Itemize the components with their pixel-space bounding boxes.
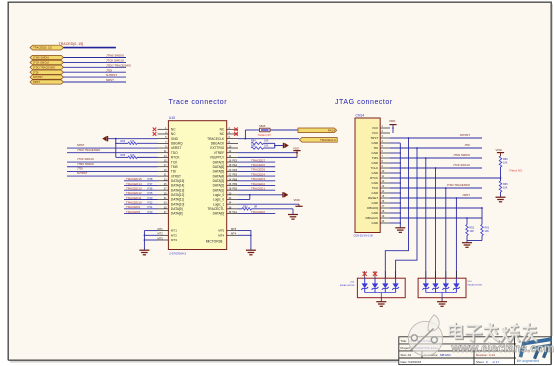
svg-text:R84: R84 (251, 140, 256, 143)
wire VCC pins to VDD (392, 125, 394, 133)
port NJTRST (30, 75, 64, 79)
U10 left pin 29 DATA[12] (158, 194, 169, 196)
CN14 pin 16 GND (380, 202, 390, 204)
wire CN14 pin 15 NRST (390, 197, 482, 199)
wire TRACED9 (124, 208, 158, 210)
wire TRACED10 (124, 203, 158, 205)
svg-text:R93: R93 (121, 140, 126, 143)
wire TRACED7 (238, 161, 275, 163)
svg-text:MT1: MT1 (171, 229, 177, 233)
svg-text:U10: U10 (169, 116, 175, 120)
svg-text:Title:: Title: (401, 339, 408, 343)
connector U10 body (168, 121, 226, 250)
svg-text:DATA[13]: DATA[13] (171, 188, 184, 192)
wire Logic_1 to VDD (238, 203, 299, 205)
U10 right pin 32 Logic_0 (227, 199, 238, 201)
wire TRACED6 (238, 166, 275, 168)
U10 right pin 10 EXTTRIG (227, 147, 238, 149)
svg-text:MT2: MT2 (171, 233, 177, 237)
logo ST (521, 339, 552, 359)
svg-text:GND: GND (372, 201, 380, 205)
wire TRACED11 (124, 199, 158, 201)
svg-text:RTCK: RTCK (171, 156, 180, 160)
svg-text:JTDI: JTDI (106, 68, 112, 72)
svg-text:10K: 10K (264, 140, 269, 143)
U10 left pin 15 TCK (158, 161, 169, 163)
svg-text:JTDO TRACESWO: JTDO TRACESWO (33, 65, 55, 69)
U10 mount pin MT3 (158, 239, 169, 241)
svg-text:0R: 0R (254, 205, 257, 208)
U10 right pin 4 NC (227, 133, 238, 135)
U10 left pin 5 GND (158, 138, 169, 140)
svg-text:TRACED7: TRACED7 (251, 158, 265, 162)
svg-text:DATA[6]: DATA[6] (213, 165, 225, 169)
svg-text:JTDO TRACESWO: JTDO TRACESWO (106, 63, 132, 67)
CN14 pin 4 GND (380, 142, 390, 144)
U14 pin 4 and zener diode 4 (455, 271, 457, 278)
svg-text:TRACED[0..15]: TRACED[0..15] (59, 42, 84, 46)
svg-text:10K: 10K (130, 140, 135, 143)
CN14 pin 20 GND (380, 222, 390, 224)
svg-text:NJTRST: NJTRST (106, 73, 117, 77)
wire TRACED5 (238, 170, 275, 172)
U10 left pin 19 TDI (158, 170, 169, 172)
wire JTMS_SWDIO (64, 57, 127, 59)
wire NRST to U10 (67, 147, 158, 149)
svg-text:DBGACK: DBGACK (211, 142, 225, 146)
U13 pin 4 and zener diode 4 (395, 271, 397, 278)
svg-text:TRACED13: TRACED13 (126, 186, 142, 190)
CN14 pin 13 TDO (380, 187, 390, 189)
svg-text:VTREF: VTREF (214, 151, 225, 155)
svg-text:JTMS SWDIO: JTMS SWDIO (106, 54, 125, 58)
svg-text:DATA[9]: DATA[9] (171, 207, 183, 211)
svg-text:NC: NC (171, 128, 176, 132)
ground flag for Logic_0 (283, 192, 288, 197)
U13 pin 2 and zener diode 2 (374, 271, 376, 278)
CN14 pin 15 RESET (380, 197, 390, 199)
U10 right pin 18 DATA[6] (227, 166, 238, 168)
wire MT1 MT2 MT3 to ground (144, 230, 157, 232)
svg-text:DATA[12]: DATA[12] (171, 193, 184, 197)
svg-text:DATA[4]: DATA[4] (213, 174, 225, 178)
CN14 pin 18 GND (380, 212, 390, 214)
ground for R89 (496, 197, 506, 202)
svg-text:TRACED8: TRACED8 (126, 210, 140, 214)
wire JTDO_TRACESWO to U10 (67, 152, 158, 154)
svg-text:DATA[8]: DATA[8] (171, 212, 183, 216)
wire TRACED14 (124, 184, 158, 186)
svg-text:JTDI: JTDI (77, 167, 83, 171)
svg-text:GND: GND (372, 191, 380, 195)
svg-text:JTCK SWCLK: JTCK SWCLK (106, 59, 124, 63)
svg-text:TRACED12: TRACED12 (126, 191, 142, 195)
wire TRACED1 (238, 189, 275, 191)
svg-text:TRACED10: TRACED10 (126, 200, 142, 204)
U10 right pin 30 Logic_0 (227, 194, 238, 196)
resistor R84 10K on DBGACK (251, 142, 264, 144)
wire CN14 pin 3 NJTRST (390, 137, 482, 139)
wire JTDO_TRACESWO (64, 66, 127, 68)
U10 right pin 14 VSUPPLY (227, 156, 238, 158)
U13 body (357, 278, 405, 298)
wire R86 to RTCK (500, 167, 502, 181)
svg-text:GND: GND (372, 221, 380, 225)
CN14 pin 11 RTCK (380, 177, 390, 179)
no-connect X on U13 pin 1 (363, 272, 367, 276)
svg-text:TMS: TMS (171, 165, 178, 169)
svg-text:MT4: MT4 (218, 233, 224, 237)
wire TRACED0 (238, 213, 275, 215)
resistor R89 10K (499, 181, 502, 192)
wire TRACECTL to ground (292, 209, 294, 215)
svg-text:GND: GND (372, 141, 380, 145)
svg-text:CON-20-2/V-1-00: CON-20-2/V-1-00 (354, 235, 374, 238)
CN14 pin 7 TMS (380, 157, 390, 159)
resistor R92 10K (466, 225, 469, 236)
svg-text:P30: P30 (148, 210, 153, 214)
wire CN14 GND pins to ground (390, 142, 400, 144)
svg-text:VCC: VCC (372, 131, 379, 135)
resistor R91 10K (481, 225, 484, 236)
wire drop pin 13 to U14 (445, 187, 447, 189)
CN14 pin 12 GND (380, 182, 390, 184)
svg-text:JTDI: JTDI (33, 70, 39, 74)
no-connect X on U10 pin 4 (234, 132, 238, 136)
svg-text:TRACED11: TRACED11 (126, 196, 142, 200)
svg-text:PB8: PB8 (233, 178, 238, 181)
U10 right pin 2 NC (227, 128, 238, 130)
svg-text:PE4: PE4 (233, 164, 238, 167)
svg-text:GND: GND (372, 181, 380, 185)
U13 common rail wire (365, 292, 396, 294)
svg-text:RTCK: RTCK (370, 176, 378, 180)
svg-text:NC: NC (171, 132, 176, 136)
port TRACECLK (299, 138, 337, 143)
svg-text:JTCK SWCLK: JTCK SWCLK (77, 157, 94, 161)
ground for MT1-3 (139, 250, 149, 255)
svg-text:MT5: MT5 (218, 229, 224, 233)
U10 left pin 7 DBGRQ (158, 142, 169, 144)
svg-text:NRST: NRST (463, 193, 471, 197)
wire NJTRST (64, 76, 127, 78)
svg-text:TRACED15: TRACED15 (126, 177, 142, 181)
CN14 pin 14 GND (380, 192, 390, 194)
U10 left pin 11 TDO (158, 152, 169, 154)
svg-text:10K: 10K (130, 154, 135, 157)
svg-text:Logic_1: Logic_1 (213, 202, 224, 206)
wire CN14 pin 5 JTDI (390, 147, 482, 149)
wire DBGRQ to R91 (481, 207, 483, 209)
svg-text:CN14: CN14 (356, 114, 365, 118)
U10 mount pin MT4 (227, 234, 238, 236)
svg-text:R90: R90 (243, 205, 248, 208)
CN14 pin 6 GND (380, 152, 390, 154)
U10 left pin 35 DATA[9] (158, 208, 169, 210)
U10 right pin 38 DATA[0] (227, 213, 238, 215)
svg-text:PE1: PE1 (233, 211, 238, 214)
wire TRACED2 (238, 184, 275, 186)
svg-text:Size: A4: Size: A4 (401, 353, 412, 357)
svg-text:NJTRST: NJTRST (460, 133, 471, 137)
svg-text:10K: 10K (470, 230, 475, 233)
svg-text:R85: R85 (251, 144, 256, 147)
no-connect X on U10 pin 2 (234, 128, 238, 132)
svg-text:GND: GND (372, 151, 380, 155)
U14 pin 2 and zener diode 2 (435, 271, 437, 278)
port JTMS_SWDIO (30, 55, 64, 59)
svg-text:NC: NC (220, 128, 225, 132)
svg-text:P33: P33 (148, 196, 153, 200)
wire TRACED12 (124, 194, 158, 196)
U10 right pin 20 DATA[5] (227, 170, 238, 172)
svg-text:MT5: MT5 (231, 227, 237, 231)
wire DBGACK to R92 (466, 217, 468, 219)
resistor R85 10K on EXTTRIG (251, 147, 264, 149)
U10 right pin 8 DBGACK (227, 142, 238, 144)
wire CN14 pin 11 (390, 177, 501, 179)
svg-text:MICTOR38: MICTOR38 (206, 240, 223, 244)
wire TRACED8 (124, 213, 158, 215)
svg-text:P32: P32 (148, 200, 153, 204)
svg-text:NJTRST: NJTRST (77, 171, 88, 175)
svg-text:life.augmented: life.augmented (517, 359, 539, 363)
bus TRACED[0..15] (64, 47, 116, 49)
wire JTCK_SWCLK (64, 61, 127, 63)
svg-text:Fitted: NO: Fitted: NO (510, 169, 524, 173)
port TRACED[0..15] (30, 45, 64, 50)
svg-text:NJTRST: NJTRST (33, 75, 43, 79)
wire TRACED15 (124, 180, 158, 182)
svg-text:TRACED5: TRACED5 (251, 168, 265, 172)
svg-text:PE6: PE6 (233, 174, 238, 177)
wire GND pulldown vertical (115, 139, 117, 158)
resistor R86 10K (500, 153, 502, 156)
U10 right pin 22 DATA[4] (227, 175, 238, 177)
title block (399, 337, 551, 365)
svg-text:VDD: VDD (496, 148, 503, 152)
svg-text:Solder NO: Solder NO (258, 133, 271, 137)
ground flag on U10 pin 5 GND (108, 138, 158, 140)
wire U14 to ground (441, 293, 443, 298)
svg-text:JTMS SWDIO: JTMS SWDIO (33, 56, 49, 60)
wire NRST (64, 81, 127, 83)
watermark text dianzifashaoyou (450, 324, 537, 342)
svg-text:PE3: PE3 (233, 160, 238, 163)
wire JTCK_SWCLK to U10 (67, 161, 158, 163)
wire CN14 pin 19 (390, 217, 482, 219)
svg-text:VDD: VDD (389, 119, 396, 123)
port JTCK_SWCLK (30, 60, 64, 64)
svg-text:10K: 10K (264, 144, 269, 147)
svg-text:of 17: of 17 (493, 360, 500, 364)
wire drop pin 3 to U13 (408, 137, 410, 139)
no-connect X on U13 pin 2 (373, 272, 377, 276)
U10 right pin 12 VTREF (227, 152, 238, 154)
svg-text:DBGRQ: DBGRQ (171, 142, 183, 146)
svg-text:MT3: MT3 (158, 236, 164, 240)
svg-text:VCC: VCC (372, 126, 379, 130)
wire MT5 MT4 to ground (238, 231, 251, 251)
svg-text:TRACED3: TRACED3 (251, 177, 265, 181)
U10 left pin 23 DATA[15] (158, 180, 169, 182)
svg-text:NC: NC (220, 132, 225, 136)
svg-text:DATA[7]: DATA[7] (213, 160, 225, 164)
svg-text:TRACED0: TRACED0 (251, 210, 265, 214)
svg-text:NRST: NRST (106, 78, 114, 82)
svg-text:10K: 10K (485, 230, 490, 233)
wire U13 to ground (380, 293, 382, 298)
svg-text:P36: P36 (148, 186, 153, 190)
U10 left pin 27 DATA[13] (158, 189, 169, 191)
svg-text:JTDO TRACESWO: JTDO TRACESWO (77, 148, 100, 152)
U10 right pin 36 TRACECTL (227, 208, 238, 210)
U13 pin 1 and zener diode 1 (364, 271, 366, 278)
resistor R90 0R on TRACECTL (242, 208, 252, 210)
wire drop pin 7 to U14 (425, 157, 427, 159)
ground for CN14 (395, 228, 405, 233)
svg-text:JTDO TRACESWO: JTDO TRACESWO (447, 183, 470, 187)
svg-text:Logic_0: Logic_0 (213, 193, 224, 197)
svg-text:DATA[2]: DATA[2] (213, 184, 225, 188)
U13 pin 3 and zener diode 3 (384, 271, 386, 278)
port JTDI (30, 70, 64, 74)
svg-text:DATA[0]: DATA[0] (213, 212, 225, 216)
wire drop pin 15 to U14 (456, 197, 458, 199)
wire NJTRST to U10 (67, 175, 158, 177)
svg-text:JTMS SWDIO: JTMS SWDIO (453, 153, 470, 157)
svg-text:TCLK: TCLK (371, 166, 379, 170)
svg-text:DATA[15]: DATA[15] (171, 179, 184, 183)
U10 left pin 33 DATA[10] (158, 203, 169, 205)
wire TRACECLK vertical to SB15 (244, 130, 246, 139)
U10 right pin 16 DATA[7] (227, 161, 238, 163)
wire CN14 pin 7 JTMS_SWDIO (390, 157, 482, 159)
wire JTDI (64, 71, 127, 73)
svg-text:DBGACK: DBGACK (366, 216, 379, 220)
junction on GND net (115, 138, 117, 140)
svg-text:R95: R95 (121, 154, 126, 157)
CN14 pin 2 VCC (380, 132, 390, 134)
svg-text:Trace connector: Trace connector (169, 99, 228, 106)
svg-text:NRST: NRST (33, 80, 40, 84)
svg-text:PE0: PE0 (233, 188, 238, 191)
wire R89 to ground (500, 192, 502, 197)
CN14 pin 3 TRST (380, 137, 390, 139)
svg-text:DATA[10]: DATA[10] (171, 202, 184, 206)
wire CN14 pin 17 (390, 207, 482, 209)
wire SB15 row (245, 129, 259, 131)
wire CN14 pin 13 JTDO_TRACESWO (390, 187, 482, 189)
svg-text:PA14: PA14 (328, 128, 335, 132)
U10 mount pin MT1 (158, 230, 169, 232)
svg-text:PB9: PB9 (233, 183, 238, 186)
ground for MT4-5 (246, 250, 256, 255)
CN14 pin 19 DBGACK (380, 217, 390, 219)
U14 pin 1 and zener diode 1 (425, 271, 427, 278)
U14 body (418, 278, 466, 298)
svg-text:JTCK SWCLK: JTCK SWCLK (33, 61, 50, 65)
wire R92 R91 join to ground (466, 236, 468, 243)
resistor R95 10K on RTCK (116, 156, 128, 158)
port PA14 (298, 128, 337, 133)
wire TRACECLK to port (238, 138, 299, 140)
U10 left pin 1 NC (158, 128, 169, 130)
svg-text:TRACED1: TRACED1 (251, 186, 265, 190)
U10 left pin 3 NC (158, 133, 169, 135)
svg-text:10K: 10K (503, 161, 508, 164)
svg-text:DATA[11]: DATA[11] (171, 198, 184, 202)
svg-text:DBGRQ: DBGRQ (367, 206, 379, 210)
svg-text:GND: GND (171, 137, 179, 141)
svg-text:DATA[5]: DATA[5] (213, 170, 225, 174)
svg-text:MT1: MT1 (158, 227, 164, 231)
connector CN14 body (355, 118, 380, 233)
U10 left pin 9 nSRST (158, 147, 169, 149)
svg-text:TRST: TRST (370, 136, 378, 140)
no-connect X on U10 pin 1 (153, 128, 157, 132)
CN14 pin 5 TDI (380, 147, 390, 149)
no-connect X on U10 pin 3 (153, 132, 157, 136)
svg-text:nTRST: nTRST (171, 174, 181, 178)
svg-text:TRACED9: TRACED9 (126, 205, 140, 209)
wire TRACED4 (238, 175, 275, 177)
svg-text:EXTTRIG: EXTTRIG (210, 146, 224, 150)
wire Logic_0 pins join (238, 194, 250, 196)
svg-text:Logic_0: Logic_0 (213, 198, 224, 202)
svg-text:TDI: TDI (373, 146, 378, 150)
CN14 pin 8 GND (380, 162, 390, 164)
svg-text:DATA[3]: DATA[3] (213, 179, 225, 183)
U14 common rail wire (426, 292, 457, 294)
wire TRACED13 (124, 189, 158, 191)
svg-text:PE5: PE5 (233, 169, 238, 172)
wire VTREF to VDD (238, 152, 297, 154)
resistor R93 10K on DBGRQ (116, 142, 128, 144)
svg-text:TDO: TDO (171, 151, 178, 155)
U10 right pin 24 DATA[3] (227, 180, 238, 182)
svg-text:DATA[14]: DATA[14] (171, 184, 184, 188)
svg-text:GND: GND (372, 171, 380, 175)
ground for U14 (437, 302, 447, 307)
watermark elecfans logo circle (408, 315, 442, 356)
svg-text:www.elecfans.com: www.elecfans.com (451, 343, 554, 355)
ground for R92 R91 (462, 243, 472, 248)
svg-text:TRACECTL: TRACECTL (207, 207, 224, 211)
CN14 pin 10 GND (380, 172, 390, 174)
svg-text:TRACED4: TRACED4 (251, 172, 265, 176)
svg-text:JTDI: JTDI (464, 143, 470, 147)
svg-text:JTMS SWDIO: JTMS SWDIO (77, 162, 94, 166)
wire drop pin 5 to U13 (416, 147, 418, 149)
svg-text:MT4: MT4 (231, 232, 237, 236)
svg-text:TDO: TDO (372, 186, 379, 190)
junction R93 net (115, 143, 116, 144)
svg-text:ESDALC6V1W5: ESDALC6V1W5 (468, 284, 483, 287)
svg-text:TCK: TCK (171, 160, 178, 164)
svg-text:VSUPPLY: VSUPPLY (210, 156, 225, 160)
U10 right pin 6 TRACECLK (227, 138, 238, 140)
U10 left pin 25 DATA[14] (158, 184, 169, 186)
svg-text:TMS: TMS (372, 156, 378, 160)
CN14 pin 17 DBGRQ (380, 207, 390, 209)
svg-text:TDI: TDI (171, 170, 176, 174)
svg-text:NRST: NRST (77, 143, 85, 147)
U10 mount pin MT2 (158, 234, 169, 236)
U10 left pin 21 nTRST (158, 175, 169, 177)
svg-text:P31: P31 (148, 205, 153, 209)
svg-text:SB15: SB15 (259, 124, 266, 128)
